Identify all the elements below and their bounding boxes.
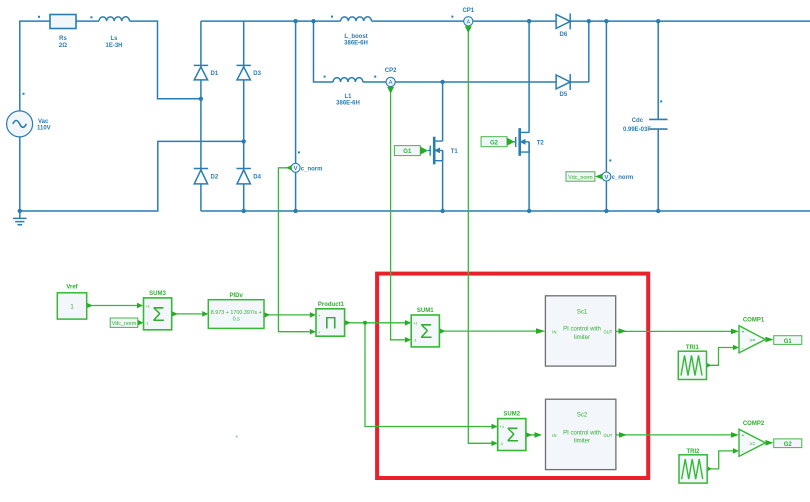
PID block PIDv: [208, 300, 264, 329]
MOSFET T1: [428, 137, 443, 165]
polarity dot CP1: [451, 16, 453, 18]
wire SUM3 to PIDv: [172, 313, 203, 315]
svg-text:PI control with: PI control with: [563, 327, 601, 333]
svg-text:+: +: [742, 330, 745, 336]
sum block SUM2: [498, 419, 526, 451]
svg-text:G2: G2: [490, 140, 499, 146]
wire AC return to bridge right-leg midpoint: [20, 141, 244, 211]
constant block Vref: [57, 293, 86, 319]
junction top rail / L1 branch: [311, 19, 315, 23]
wire arrowhead SUM2 +1 input: [492, 424, 498, 430]
svg-text:+1: +1: [500, 424, 505, 429]
svg-text:D1: D1: [211, 71, 219, 77]
wire arrowhead CP2 output: [387, 87, 394, 94]
wire bridge left leg: [200, 21, 202, 211]
voltage source Vac: [7, 111, 33, 137]
wire SUM1 to Sc1: [439, 330, 536, 332]
svg-text:IN: IN: [552, 433, 556, 438]
junction bottom rail / T1 source: [440, 209, 444, 213]
stray dot: [236, 436, 238, 438]
wire CP1 signal to SUM2 minus input: [468, 26, 491, 443]
svg-text:386E-6H: 386E-6H: [344, 41, 368, 47]
svg-text:Rs: Rs: [59, 36, 67, 42]
svg-text:D5: D5: [560, 92, 568, 98]
inductor L1: [333, 78, 363, 82]
svg-text:Sc2: Sc2: [577, 413, 588, 419]
triangle generator TRI1: [678, 351, 706, 379]
svg-text:Vdc_norm: Vdc_norm: [568, 175, 593, 181]
wire arrowhead PIDv input: [202, 311, 208, 317]
junction bottom rail / Cdc branch: [656, 209, 660, 213]
polarity dot L1: [324, 76, 326, 78]
polarity dot Vac_norm: [298, 151, 300, 153]
svg-text:PIDv: PIDv: [230, 293, 244, 299]
svg-text:L1: L1: [344, 94, 352, 100]
svg-text:G1: G1: [403, 149, 412, 155]
signal tag G2 (gate drive): [481, 137, 507, 147]
wire arrowhead SUM3 output: [172, 311, 178, 317]
svg-text:D4: D4: [253, 174, 261, 180]
diode D6: [556, 14, 570, 30]
diode D1: [194, 65, 208, 80]
svg-text:0.s: 0.s: [233, 316, 240, 322]
voltmeter Vdc_norm: [602, 172, 611, 181]
wire Vac_norm voltmeter branch: [295, 21, 297, 211]
svg-text:+: +: [742, 433, 745, 439]
svg-text:110V: 110V: [37, 125, 51, 131]
signal tag G1 (gate drive): [394, 146, 420, 156]
svg-text:D2: D2: [211, 174, 219, 180]
wire arrowhead Product1 upper input: [310, 312, 316, 318]
svg-text:T2: T2: [537, 141, 545, 147]
svg-text:TRI1: TRI1: [686, 345, 700, 351]
wire arrowhead Vac_norm output: [286, 165, 291, 171]
polarity dot Cdc: [660, 100, 662, 102]
svg-text:TRI2: TRI2: [686, 449, 700, 455]
wire bridge right leg: [243, 21, 245, 211]
comparator COMP1: [739, 326, 765, 353]
wire arrowhead Vref output: [87, 303, 93, 309]
output tag G2: [774, 439, 802, 448]
svg-text:OUT: OUT: [603, 329, 612, 334]
inductor Ls: [99, 17, 130, 21]
wire bottom DC rail: [201, 210, 810, 212]
polarity dot L_boost: [331, 16, 333, 18]
svg-text:+1: +1: [145, 303, 150, 308]
wire PIDv to Product1 upper input: [264, 314, 310, 316]
svg-text:SUM3: SUM3: [149, 291, 166, 297]
svg-text:Π: Π: [325, 314, 337, 333]
junction bottom rail / T2 source: [527, 209, 531, 213]
svg-text:CP1: CP1: [462, 8, 474, 14]
wire Sc1 to COMP1 plus input: [616, 330, 731, 332]
wire Sc2 to COMP2 plus input: [616, 434, 731, 436]
wire arrowhead COMP2 + input: [731, 432, 739, 438]
wire T1 source to bottom rail: [442, 150, 444, 211]
wire Vref to SUM3: [87, 305, 137, 307]
svg-text:A: A: [466, 20, 470, 26]
wire arrowhead COMP1 + input: [731, 329, 739, 335]
subsystem Sc2: [546, 399, 616, 469]
wire arrowhead COMP2 - input: [733, 448, 739, 454]
ground: [13, 211, 27, 225]
svg-text:c_norm: c_norm: [612, 175, 634, 181]
junction top rail / Cdc branch: [656, 19, 660, 23]
junction bottom rail / D4: [242, 209, 246, 213]
junction top rail / Vac_norm branch: [293, 19, 297, 23]
svg-text:Sc1: Sc1: [577, 309, 588, 315]
wire arrowhead PIDv output: [264, 312, 270, 318]
ammeter CP1: [464, 17, 473, 26]
svg-text:OUT: OUT: [603, 433, 612, 438]
capacitor Cdc: [649, 119, 667, 129]
wire arrowhead Sc2 input: [535, 432, 543, 438]
svg-text:A: A: [389, 80, 393, 86]
svg-text:G1: G1: [784, 339, 793, 345]
ammeter CP2: [386, 77, 395, 86]
inductor L_boost: [341, 17, 372, 21]
wire arrowhead Product1 output: [345, 320, 351, 326]
junction bridge left-leg midpoint (AC input a): [199, 97, 203, 101]
polarity dot Ls: [90, 16, 92, 18]
polarity dot CP2: [374, 76, 376, 78]
wire branch down to SUM2 plus input: [365, 323, 492, 427]
junction current-reference branch node: [363, 321, 367, 325]
svg-text:0.99E-03F: 0.99E-03F: [623, 127, 651, 133]
svg-text:Vdc_norm: Vdc_norm: [112, 321, 137, 327]
svg-text:SUM1: SUM1: [417, 308, 434, 314]
voltmeter Vac_norm: [291, 163, 300, 172]
polarity dot Vac: [23, 93, 25, 95]
svg-text:COMP1: COMP1: [743, 318, 765, 324]
triangle generator TRI2: [679, 455, 707, 483]
wire T1 drain: [442, 82, 444, 141]
svg-text:COMP2: COMP2: [743, 421, 765, 427]
svg-text:T1: T1: [451, 149, 459, 155]
svg-text:Σ: Σ: [507, 425, 519, 447]
svg-text:386E-6H: 386E-6H: [336, 101, 360, 107]
svg-text:>=: >=: [750, 441, 756, 447]
svg-text:Vref: Vref: [66, 284, 78, 290]
wire arrowhead Product1 lower input: [310, 329, 316, 335]
diode D2: [194, 169, 208, 184]
product block Product1: [316, 309, 345, 336]
signal tag Vdc_norm (from): [110, 318, 138, 327]
wire Vac_norm signal to Product1 lower input: [278, 168, 309, 332]
wire Product1 to SUM1 plus input: [345, 322, 406, 324]
svg-text:CP2: CP2: [385, 68, 397, 74]
wire T2 source to bottom rail: [528, 142, 530, 211]
wire arrowhead SUM1 output: [439, 328, 445, 334]
wire arrowhead SUM1 +1 input: [405, 320, 411, 326]
svg-text:c_norm: c_norm: [301, 166, 323, 172]
wire Ls to bridge left-leg midpoint: [130, 21, 201, 99]
junction bottom rail / Vdc_norm branch: [604, 209, 608, 213]
svg-text:>=: >=: [750, 338, 756, 344]
diode D4: [237, 169, 251, 184]
wire arrowhead SUM2 output: [526, 432, 532, 438]
polarity dot Rs: [38, 16, 40, 18]
svg-text:1E-3H: 1E-3H: [105, 43, 122, 49]
diode D5: [556, 74, 570, 90]
svg-text:Product1: Product1: [318, 302, 345, 308]
sum block SUM3: [144, 298, 172, 330]
wire Rs to Ls: [76, 20, 99, 22]
wire SUM2 to Sc2: [526, 434, 540, 436]
svg-text:V: V: [604, 175, 608, 181]
signal tag Vdc_norm (goto, near voltmeter): [566, 172, 595, 181]
junction bottom rail / Vac_norm branch: [293, 209, 297, 213]
MOSFET T2: [513, 128, 529, 156]
wire arrowhead Sc1 output: [619, 328, 627, 334]
junction bridge right-leg midpoint (AC input b): [242, 139, 246, 143]
sum block SUM1: [411, 315, 439, 347]
wire AC source top to resistor Rs: [20, 21, 50, 111]
output tag G1: [774, 336, 802, 345]
svg-text:L_boost: L_boost: [344, 34, 367, 40]
wire arrowhead COMP1 - input: [733, 345, 739, 351]
wire arrowhead CP1 output: [465, 26, 472, 33]
junction top rail / D5 riser: [587, 19, 591, 23]
wire L1 row to D5 and riser: [363, 21, 589, 82]
wire arrowhead COMP1 output to G1: [765, 337, 773, 343]
wire top DC rail: [201, 20, 810, 22]
wire arrowhead TRI1 output: [706, 363, 711, 368]
svg-text:Vac: Vac: [38, 119, 49, 125]
junction AC return / ground: [18, 209, 22, 213]
wire CP2 signal to SUM1 minus input: [391, 87, 405, 340]
wire arrowhead Sc2 output: [619, 432, 627, 438]
svg-text:G2: G2: [784, 442, 793, 448]
svg-text:PI control with: PI control with: [563, 430, 601, 436]
wire arrowhead Vdc_norm voltmeter to goto tag: [595, 174, 602, 180]
wire arrowhead TRI2 output: [707, 466, 712, 471]
svg-text:SUM2: SUM2: [503, 412, 520, 418]
resistor Rs: [50, 15, 76, 29]
wire Vdc_norm voltmeter branch: [605, 21, 607, 211]
junction L1 row / T1 drain: [440, 80, 444, 84]
subsystem Sc1: [545, 296, 615, 366]
svg-text:Σ: Σ: [152, 304, 164, 326]
svg-text:Cdc: Cdc: [632, 118, 644, 124]
svg-text:IN: IN: [552, 329, 556, 334]
wire branch to second boost leg: [314, 21, 334, 82]
wire Cdc branch: [657, 21, 659, 211]
junction top rail / Vdc_norm branch: [604, 19, 608, 23]
polarity dot Vdc_norm: [609, 160, 611, 162]
wire arrowhead SUM3 +1 input: [137, 303, 143, 309]
red highlight rectangle: [377, 274, 648, 478]
svg-text:Σ: Σ: [420, 321, 432, 343]
svg-text:+1: +1: [413, 320, 418, 325]
svg-text:Ls: Ls: [110, 36, 118, 42]
svg-text:limiter: limiter: [574, 335, 590, 341]
wire arrowhead SUM2 -1 input: [492, 441, 498, 447]
wire TRI2 to COMP2 minus input: [711, 451, 733, 469]
svg-text:D3: D3: [253, 71, 261, 77]
comparator COMP2: [739, 429, 765, 456]
svg-text:D6: D6: [560, 32, 568, 38]
svg-text:V: V: [294, 166, 298, 172]
wire AC source bottom to ground node: [19, 137, 21, 211]
junction top rail / T2 drain: [527, 19, 531, 23]
wire TRI1 to COMP1 minus input: [711, 348, 734, 366]
wire arrowhead COMP2 output to G2: [765, 440, 773, 446]
svg-text:2Ω: 2Ω: [59, 43, 67, 49]
wire arrowhead Sc1 input: [536, 328, 545, 334]
svg-text:limiter: limiter: [574, 439, 590, 445]
wire T2 drain: [528, 21, 530, 132]
wire arrowhead SUM1 -1 input: [405, 337, 411, 343]
diode D3: [237, 65, 251, 80]
svg-text:8.973 + 1700.397/s +: 8.973 + 1700.397/s +: [211, 310, 262, 316]
